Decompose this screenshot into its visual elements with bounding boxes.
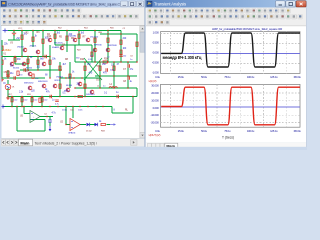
node — [37, 69, 38, 70]
transistor Q17 — [22, 62, 26, 66]
wire — [66, 124, 70, 126]
right tab bar — [146, 143, 306, 149]
node — [21, 106, 22, 107]
wire — [136, 34, 138, 62]
wire — [59, 62, 61, 96]
source V1 wave — [7, 86, 10, 88]
node — [27, 56, 28, 57]
right bottom frame — [146, 149, 308, 150]
op-amp U2 pins — [71, 122, 73, 128]
node — [84, 87, 85, 88]
wire — [16, 107, 18, 132]
left toolbar area — [1, 8, 145, 26]
wire — [23, 107, 25, 114]
wire — [7, 80, 9, 84]
left tab bar top edge — [1, 137, 145, 139]
btn close — [296, 1, 306, 7]
left min glyph — [123, 4, 127, 6]
resistor R14 — [120, 40, 122, 44]
lower h gridline — [161, 92, 301, 94]
node — [7, 77, 8, 78]
transistor Q14 — [28, 72, 32, 76]
node — [41, 106, 42, 107]
wire — [11, 97, 13, 107]
svg-text:меандр ВЧ-1 300 кГц: меандр ВЧ-1 300 кГц — [163, 55, 202, 60]
svg-text:100.0u: 100.0u — [247, 129, 255, 133]
resistor R7 — [49, 60, 51, 64]
node — [74, 87, 75, 88]
lower v gridline — [169, 84, 171, 127]
node — [94, 30, 95, 31]
node — [81, 77, 82, 78]
svg-text:-20.000: -20.000 — [151, 121, 160, 125]
resistor R15 — [103, 61, 107, 63]
node — [13, 30, 14, 31]
node — [120, 33, 121, 34]
node — [21, 96, 22, 97]
transistor Q11 — [93, 48, 97, 52]
transistor Q1 — [23, 48, 27, 52]
page nav button — [6, 140, 10, 146]
node — [107, 30, 108, 31]
resistor R29 — [84, 84, 86, 88]
node — [54, 30, 55, 31]
svg-text:2N5401: 2N5401 — [17, 47, 25, 49]
right title icon — [147, 1, 152, 6]
svg-text:BC560: BC560 — [26, 68, 33, 70]
left window title bar — [0, 0, 146, 8]
schematic canvas — [2, 26, 140, 138]
resistor R1 — [21, 35, 23, 39]
left window frame — [0, 0, 146, 147]
wire — [2, 56, 50, 58]
node — [16, 106, 17, 107]
svg-text:0.000: 0.000 — [153, 106, 160, 110]
page nav button — [160, 143, 164, 148]
right tab bar top edge — [146, 142, 306, 144]
node — [65, 106, 66, 107]
red square wave trace — [161, 87, 300, 125]
svg-text:VCC: VCC — [18, 28, 23, 30]
node — [21, 30, 22, 31]
node — [7, 96, 8, 97]
schematic v-scrollbar track — [140, 26, 146, 138]
svg-text:Main: Main — [20, 140, 30, 145]
wire — [17, 130, 45, 132]
svg-text:BD712: BD712 — [64, 90, 71, 92]
diode — [87, 123, 90, 126]
node — [102, 106, 103, 107]
wire — [69, 62, 71, 88]
wire — [132, 97, 134, 114]
resistor R21 — [27, 59, 29, 63]
schematic group — [0, 28, 138, 135]
svg-text:MJE15033: MJE15033 — [38, 81, 48, 83]
min glyph — [279, 4, 283, 6]
wire — [78, 31, 80, 46]
wire — [107, 31, 109, 63]
lower v gridline — [239, 84, 241, 127]
svg-text:75.0u: 75.0u — [224, 129, 231, 133]
wire — [95, 75, 137, 77]
node — [42, 56, 43, 57]
resistor R12 — [113, 66, 115, 70]
left title icon detail — [2, 2, 5, 4]
v-scroll up glyph — [141, 28, 143, 30]
left tab bar — [1, 138, 145, 146]
node — [84, 61, 85, 62]
resistor R33 — [101, 123, 105, 125]
wire — [14, 57, 16, 65]
wire — [84, 58, 102, 80]
svg-text:1.000: 1.000 — [153, 30, 160, 34]
transistor Q6 — [53, 84, 57, 88]
capacitor C17 — [14, 76, 15, 80]
wire — [120, 31, 122, 63]
svg-text:KSA992: KSA992 — [52, 46, 60, 49]
svg-text:T (Secs): T (Secs) — [222, 136, 234, 140]
wire — [60, 77, 100, 79]
capacitor C16 — [119, 55, 123, 56]
transistor Q3 — [60, 46, 64, 50]
port — [1, 105, 5, 109]
svg-text:v(1) (V): v(1) (V) — [149, 79, 157, 83]
lower v gridline — [286, 84, 288, 127]
ground — [0, 78, 4, 81]
wire — [1, 40, 3, 78]
svg-text:1N5402: 1N5402 — [56, 76, 64, 78]
capacitor C6 — [45, 55, 46, 59]
node — [27, 69, 28, 70]
capacitor C1 — [128, 64, 129, 68]
left title button — [121, 1, 128, 7]
node — [127, 61, 128, 62]
svg-text:AMP_for_probatable BSD MOSFET: AMP_for_probatable BSD MOSFET simu_3kHz_… — [212, 27, 283, 31]
svg-text:150.0u: 150.0u — [293, 75, 301, 79]
resistor R32 — [39, 98, 41, 102]
left toolbar row 3 icons — [0, 0, 1, 1]
svg-text:0.500: 0.500 — [153, 40, 160, 44]
node — [84, 96, 85, 97]
op-amp U5 pins — [31, 114, 33, 120]
transistor Q8 — [78, 82, 82, 86]
wire — [31, 97, 33, 107]
svg-text:0.000: 0.000 — [153, 50, 160, 54]
wire — [2, 77, 45, 79]
node — [31, 96, 32, 97]
svg-text:125.0u: 125.0u — [270, 129, 278, 133]
btn restore — [286, 1, 296, 7]
wire — [21, 97, 23, 107]
wire — [90, 124, 95, 126]
left toolbar row 1 icons — [0, 0, 1, 1]
capacitor C2 — [128, 76, 129, 80]
left toolbar row 2 icons — [0, 0, 1, 1]
wire — [75, 61, 137, 63]
svg-text:Text \ Models_2 \ Power Suppli: Text \ Models_2 \ Power Supplies_1,3(5) … — [35, 141, 98, 145]
node — [32, 30, 33, 31]
wire — [7, 70, 9, 78]
wire — [49, 45, 51, 78]
h-scroll glyph — [133, 141, 135, 144]
transistor Q2 — [36, 50, 40, 54]
node — [46, 116, 47, 117]
svg-text:30.000: 30.000 — [151, 84, 159, 88]
right title bar — [146, 0, 308, 8]
desktop background — [0, 0, 307, 150]
node — [27, 63, 28, 64]
wire — [91, 45, 93, 62]
right toolbar edge — [146, 25, 306, 27]
page nav button — [14, 140, 18, 146]
upper plot border — [161, 32, 301, 74]
node — [127, 75, 128, 76]
wire — [13, 31, 15, 34]
node — [99, 75, 100, 76]
black square wave trace — [161, 33, 300, 67]
node — [120, 61, 121, 62]
page nav glyph — [15, 141, 17, 143]
node — [107, 61, 108, 62]
svg-text:25.0u: 25.0u — [178, 75, 185, 79]
svg-text:v(OUT) (V): v(OUT) (V) — [149, 133, 161, 137]
wire — [21, 31, 23, 57]
node — [95, 106, 96, 107]
wire — [84, 62, 86, 96]
node — [127, 87, 128, 88]
page nav button — [2, 140, 6, 146]
node — [136, 61, 137, 62]
node — [1, 56, 2, 57]
upper h gridline — [161, 43, 301, 45]
wire — [8, 39, 20, 41]
h-scroll right button — [131, 140, 137, 146]
page nav button — [148, 143, 152, 148]
upper h gridline — [161, 33, 301, 35]
node — [23, 106, 24, 107]
v-scroll down button — [140, 132, 145, 138]
wire — [94, 31, 96, 63]
wire — [72, 107, 74, 119]
node — [1, 77, 2, 78]
node — [57, 106, 58, 107]
left close glyph — [139, 3, 142, 6]
lower h gridline — [161, 99, 301, 101]
node — [59, 69, 60, 70]
node — [73, 77, 74, 78]
wire — [44, 120, 46, 132]
svg-text:125.0u: 125.0u — [270, 75, 278, 79]
right toolbar area — [146, 8, 306, 26]
capacitor C18 — [106, 68, 107, 72]
node — [65, 124, 66, 125]
page nav button — [152, 143, 156, 148]
svg-text:BD140: BD140 — [66, 85, 73, 87]
upper v gridline — [169, 32, 171, 74]
node — [42, 30, 43, 31]
node — [99, 87, 100, 88]
wire — [55, 44, 79, 46]
resistor R3 — [42, 39, 44, 43]
svg-text:BD139: BD139 — [55, 80, 62, 82]
capacitor C13 — [55, 100, 59, 101]
node — [37, 56, 38, 57]
transistor Q13 — [48, 38, 52, 42]
resistor R31 — [7, 71, 9, 75]
svg-text:50.0u: 50.0u — [201, 75, 208, 79]
resistor R22 — [94, 38, 96, 42]
resistor R37 — [32, 74, 34, 78]
wire — [74, 45, 76, 62]
capacitor C3 — [117, 95, 118, 99]
wire — [112, 112, 133, 114]
wire — [80, 124, 86, 126]
transistor Q9 — [28, 86, 32, 90]
page nav glyph — [11, 141, 13, 143]
node — [41, 96, 42, 97]
resistor R18 — [21, 98, 23, 102]
resistor R23 — [120, 50, 122, 54]
capacitor C9 — [24, 68, 25, 72]
lower v gridline — [216, 84, 218, 127]
resistor R36 — [17, 71, 19, 75]
node — [79, 106, 80, 107]
wire — [100, 33, 137, 35]
node — [66, 30, 67, 31]
node — [65, 77, 66, 78]
ground — [6, 97, 10, 100]
wire — [32, 31, 34, 48]
upper zero baseline — [161, 52, 301, 54]
lower v gridline — [262, 84, 264, 127]
active tab Main — [19, 139, 33, 146]
page nav button — [156, 143, 160, 148]
node — [11, 96, 12, 97]
svg-text:C:\MC10\DATA\theory\AMP_for_pr: C:\MC10\DATA\theory\AMP_for_probatable B… — [8, 2, 124, 6]
diode — [95, 123, 98, 126]
resistor R6 — [78, 34, 80, 38]
svg-text:20.000: 20.000 — [151, 91, 159, 95]
page nav button — [10, 140, 14, 146]
lower h gridline — [161, 114, 301, 116]
resistor R30 — [136, 42, 138, 46]
node — [49, 56, 50, 57]
wire — [42, 31, 44, 57]
node — [113, 87, 114, 88]
svg-text:D1 D2: D1 D2 — [86, 131, 92, 133]
transistor Q10 — [42, 84, 46, 88]
upper v gridline — [216, 32, 218, 74]
wire — [3, 106, 112, 108]
page nav glyph — [3, 141, 5, 143]
resistor R4 — [54, 34, 56, 38]
wire — [65, 107, 67, 125]
node — [113, 61, 114, 62]
upper v gridline — [286, 32, 288, 74]
bottom frame — [0, 147, 307, 150]
node — [113, 75, 114, 76]
node — [11, 106, 12, 107]
capacitor C4 — [48, 120, 52, 122]
wire — [13, 35, 15, 40]
svg-text:VEE: VEE — [98, 32, 103, 34]
resistor R17 — [11, 98, 13, 102]
svg-text:NJW0281: NJW0281 — [86, 94, 95, 96]
wire — [8, 30, 121, 32]
right window frame — [145, 0, 307, 150]
resistor R19 — [31, 98, 33, 102]
btn minimize — [276, 1, 286, 7]
inductor L2 — [109, 87, 117, 88]
capacitor C5 — [6, 75, 10, 76]
wire — [20, 69, 62, 71]
resistor R10 — [84, 66, 86, 70]
resistor R11 — [99, 66, 101, 70]
svg-text:2SA1380: 2SA1380 — [68, 34, 77, 37]
port — [3, 29, 8, 33]
node — [49, 106, 50, 107]
svg-text:10.000: 10.000 — [151, 98, 159, 102]
lower plot border — [161, 84, 301, 127]
wire — [75, 44, 92, 46]
node — [99, 61, 100, 62]
wire — [7, 88, 9, 97]
node — [49, 77, 50, 78]
left max glyph — [131, 3, 134, 6]
v-scroll down glyph — [141, 135, 143, 137]
resistor R35 — [91, 52, 93, 56]
wire — [8, 96, 137, 98]
resistor R8 — [59, 66, 61, 70]
wire — [40, 116, 53, 118]
plot canvas — [146, 26, 306, 142]
left title button — [137, 1, 144, 7]
svg-text:150.0u: 150.0u — [293, 129, 301, 133]
v-scroll thumb — [140, 32, 145, 52]
transistor Q7 — [66, 88, 70, 92]
wire — [66, 31, 68, 53]
lower v gridline — [193, 84, 195, 127]
wire — [30, 119, 45, 121]
node — [107, 33, 108, 34]
wire — [15, 63, 28, 65]
svg-text:IRFP9240: IRFP9240 — [108, 45, 118, 47]
wire — [99, 62, 101, 88]
lower zero baseline — [161, 106, 301, 108]
page nav glyph — [7, 141, 9, 143]
node — [31, 106, 32, 107]
resistor R9 — [1, 60, 3, 64]
svg-text:100.0u: 100.0u — [247, 75, 255, 79]
node — [59, 96, 60, 97]
svg-text:Transient Analysis: Transient Analysis — [154, 2, 186, 7]
upper v gridline — [262, 32, 264, 74]
op-amp U5 — [30, 111, 40, 123]
transistor Q16 — [10, 62, 14, 66]
resistor R34 — [107, 38, 109, 42]
source V1 sine — [5, 84, 11, 90]
transistor Q12 — [106, 48, 110, 52]
svg-text:75.0u: 75.0u — [224, 75, 231, 79]
capacitor C12 — [50, 95, 51, 99]
resistor R5 — [66, 36, 68, 40]
transistor Q15 — [90, 90, 94, 94]
svg-text:-1.000: -1.000 — [152, 70, 159, 74]
port OUT2 — [110, 123, 116, 126]
wire — [75, 87, 137, 89]
svg-text:-10.000: -10.000 — [151, 113, 160, 117]
svg-text:BC550: BC550 — [13, 68, 20, 70]
